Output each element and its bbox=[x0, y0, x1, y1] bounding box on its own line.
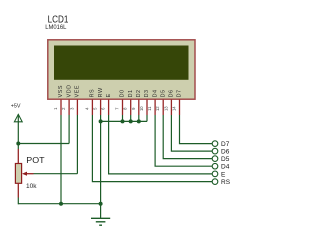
svg-text:D6: D6 bbox=[169, 89, 175, 97]
svg-text:D2: D2 bbox=[136, 89, 142, 97]
pin stub 4 bbox=[91, 99, 93, 115]
svg-text:RS: RS bbox=[221, 179, 231, 186]
power symbol +5V arrow bbox=[14, 114, 22, 121]
svg-text:LM016L: LM016L bbox=[45, 24, 67, 31]
pin stub 13 bbox=[170, 99, 172, 115]
POT wiper arrowhead bbox=[22, 172, 27, 176]
wire D1 stub to tie line bbox=[130, 115, 132, 121]
terminal E bbox=[212, 171, 218, 177]
pin stub 11 bbox=[154, 99, 156, 115]
wire tie line RW-D0-D3 bbox=[101, 120, 147, 122]
wire +5V stem down to VDD junction bbox=[17, 114, 19, 149]
terminal D7 bbox=[212, 141, 218, 147]
wire D5 pin12 down and right to terminal bbox=[163, 115, 212, 159]
svg-text:E: E bbox=[106, 93, 112, 97]
POT pin top (red) bbox=[17, 149, 19, 164]
wire POT bottom to ground rail bbox=[17, 198, 19, 205]
pin stub 9 bbox=[138, 99, 140, 115]
svg-text:D7: D7 bbox=[221, 141, 230, 148]
svg-text:D6: D6 bbox=[221, 149, 230, 156]
wire VDD vertical up to pin2 bbox=[68, 115, 70, 144]
junction dot D0 bbox=[121, 119, 125, 123]
svg-text:10k: 10k bbox=[26, 184, 38, 190]
svg-text:VSS: VSS bbox=[58, 85, 64, 97]
pin stub 12 bbox=[162, 99, 164, 115]
wire D3 stub to tie line bbox=[146, 115, 148, 121]
svg-text:D3: D3 bbox=[144, 89, 150, 97]
wire VDD horizontal from +5V to pin2 bbox=[18, 143, 69, 145]
junction dot ground bbox=[99, 202, 103, 206]
wire D2 stub to tie line bbox=[138, 115, 140, 121]
pin stub 5 bbox=[100, 99, 102, 115]
svg-text:VEE: VEE bbox=[75, 85, 81, 97]
svg-text:D0: D0 bbox=[120, 89, 126, 97]
wire ground rail horizontal bbox=[18, 203, 100, 205]
wire D4 pin11 down and right to terminal bbox=[155, 115, 212, 166]
LCD LCD1 body bbox=[48, 40, 195, 99]
svg-text:+5V: +5V bbox=[11, 103, 21, 109]
wire D7 pin14 down and right to terminal bbox=[180, 115, 213, 144]
svg-text:VDD: VDD bbox=[66, 84, 72, 97]
POT pin bottom (red) bbox=[17, 183, 19, 197]
svg-text:13: 13 bbox=[163, 106, 168, 111]
LCD screen bbox=[54, 46, 189, 80]
terminal RS bbox=[212, 179, 218, 185]
pin stub 10 bbox=[146, 99, 148, 115]
terminal D6 bbox=[212, 148, 218, 154]
svg-text:D7: D7 bbox=[177, 89, 183, 97]
wire RW pin5 down to ground bbox=[100, 115, 102, 204]
wire D6 pin13 down and right to terminal bbox=[171, 115, 212, 151]
junction dot +5V/VDD bbox=[16, 142, 20, 146]
junction dot D1 bbox=[129, 119, 133, 123]
junction dot RW/tie line bbox=[99, 119, 103, 123]
svg-text:D5: D5 bbox=[221, 156, 230, 163]
svg-text:RW: RW bbox=[98, 87, 104, 97]
svg-text:10: 10 bbox=[139, 106, 144, 111]
pin stub 1 bbox=[60, 99, 62, 115]
svg-text:12: 12 bbox=[155, 106, 160, 111]
POT wiper pin (red) bbox=[27, 173, 34, 175]
terminal D4 bbox=[212, 163, 218, 169]
wire VSS pin1 down to ground rail bbox=[60, 115, 62, 204]
svg-text:D4: D4 bbox=[152, 89, 158, 97]
svg-text:D4: D4 bbox=[221, 164, 230, 171]
pin stub 2 bbox=[68, 99, 70, 115]
potentiometer POT body bbox=[15, 164, 21, 184]
wire VEE from POT wiper to pin3 bbox=[34, 173, 78, 175]
pin stub 6 bbox=[108, 99, 110, 115]
svg-text:POT: POT bbox=[26, 155, 45, 165]
pin stub 7 bbox=[122, 99, 124, 115]
ground symbol bbox=[91, 204, 110, 226]
junction dot VSS/ground rail bbox=[59, 202, 63, 206]
svg-text:E: E bbox=[221, 171, 226, 178]
svg-text:D1: D1 bbox=[128, 89, 134, 97]
pin stub 8 bbox=[130, 99, 132, 115]
svg-text:11: 11 bbox=[147, 106, 152, 111]
pin stub 14 bbox=[179, 99, 181, 115]
wire D0 stub to tie line bbox=[122, 115, 124, 121]
wire VEE vertical up to pin3 bbox=[76, 115, 78, 174]
wire E pin6 down and right to terminal bbox=[109, 115, 213, 174]
terminal D5 bbox=[212, 156, 218, 162]
svg-text:RS: RS bbox=[90, 89, 96, 98]
junction dot D2 bbox=[137, 119, 141, 123]
svg-text:D5: D5 bbox=[160, 89, 166, 97]
svg-text:14: 14 bbox=[172, 106, 177, 111]
wire RS pin4 down and right to terminal bbox=[92, 115, 212, 182]
pin stub 3 bbox=[76, 99, 78, 115]
